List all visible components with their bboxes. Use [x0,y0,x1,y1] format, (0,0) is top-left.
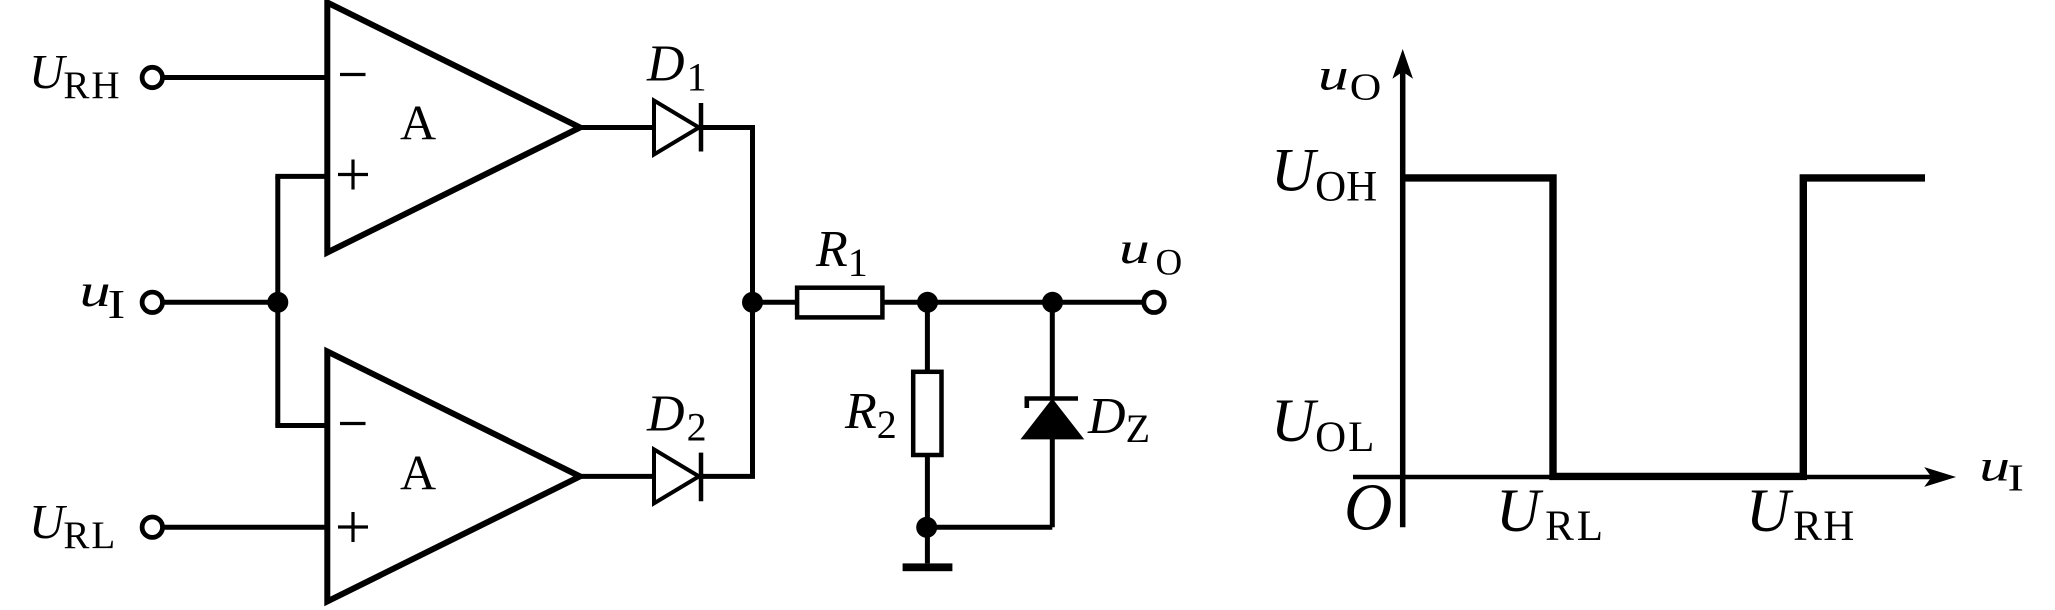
svg-text:I: I [108,283,126,328]
wire u_I to junction [163,300,278,305]
wire node to node [928,300,1053,305]
wire vertical output bus [750,128,755,477]
wire D2 to bus corner [699,474,755,479]
svg-text:O: O [1350,66,1382,108]
wire U_RL to U2 non-inverting input [163,525,330,530]
svg-text:O: O [1156,242,1183,283]
svg-text:A: A [400,444,436,500]
wire U2 output to D2 [578,474,656,479]
wire ground node to DZ anode [927,525,1053,530]
svg-text:u: u [1979,441,2010,490]
wire R1 to node [882,300,927,305]
node bus junction [742,292,763,313]
diode D2 [654,449,699,503]
svg-text:O: O [1344,471,1392,545]
wire U1 output to D1 [578,125,656,130]
svg-text:I: I [2008,457,2024,499]
wire to U1 non-inverting input [275,174,330,179]
y-axis u_O [1400,62,1406,527]
wire vertical input bus [275,176,280,425]
node ground junction [916,517,937,538]
wire node to output terminal [1053,300,1145,305]
node u_I junction [267,292,288,313]
terminal U_RH [142,67,162,87]
svg-text:u: u [1318,50,1349,99]
transfer curve [1403,178,1925,477]
wire U_RH to op-amp U1 inverting input [163,75,330,80]
wire D1 to bus corner [699,125,755,130]
wire DZ cathode [1050,302,1055,398]
op-amp U2 (bottom comparator A) [327,351,580,601]
wire to U2 inverting input [275,423,330,428]
x-axis u_I [1353,475,1938,480]
op-amp U1 (top comparator A) [327,3,580,253]
terminal u_O [1144,292,1164,312]
node DZ top [1042,292,1063,313]
zener diode DZ [1023,400,1083,438]
svg-text:u: u [1119,223,1150,272]
wire DZ anode [1050,436,1055,527]
wire R2 top [925,302,930,373]
wire bus to R1 [753,300,800,305]
node R2 top [917,292,938,313]
terminal U_RL [142,517,162,537]
wire R2 bottom to ground [925,455,930,563]
terminal u_I [142,292,162,312]
resistor R2 [913,372,941,455]
ground [903,563,953,571]
diode D1 [654,101,699,155]
resistor R1 [797,288,882,318]
svg-text:A: A [400,94,436,150]
svg-text:u: u [80,264,111,316]
